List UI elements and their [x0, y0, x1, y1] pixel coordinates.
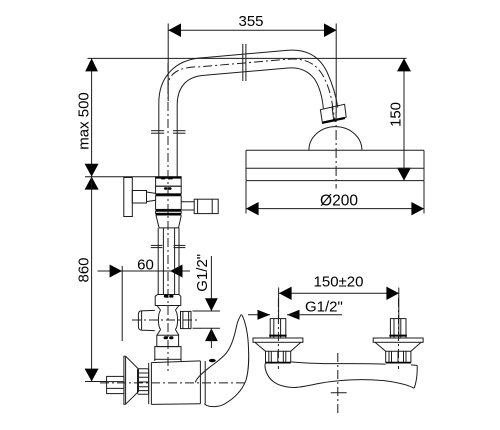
cross top shoulders: [157, 306, 179, 311]
left union escutcheon plate: [253, 338, 303, 342]
left knob stem: [132, 191, 146, 204]
left union centerline (dash-dot): [277, 298, 279, 369]
left union cone: [255, 342, 301, 351]
shower head dome: [309, 127, 362, 151]
shower head plate bottom edge: [246, 180, 424, 182]
right union stub base dark line: [389, 335, 406, 337]
cross top nut glyph: [164, 295, 168, 298]
shower head plate mid edge: [246, 167, 424, 169]
lower pipe outer edges: [157, 228, 159, 295]
cartridge neck: [155, 359, 181, 361]
lever handle inner edge: [195, 316, 240, 382]
union ticks on lower pipe: [151, 244, 163, 246]
flange throat line: [137, 369, 139, 392]
dim max500 line: [91, 58, 93, 176]
dim 60 extension line (wall plane): [121, 266, 123, 341]
shower head plate top edge: [246, 149, 424, 151]
dim 355 left extension line (riser centerline): [167, 24, 169, 102]
left union fluted nut bottom: [266, 362, 291, 364]
spout inner curve: [177, 68, 323, 109]
shower head plate right edge: [423, 150, 425, 180]
svg-text:355: 355: [238, 13, 263, 30]
dim G1/2 upper bottom tail: [210, 328, 212, 348]
dim 355 left arrow: [168, 23, 181, 37]
left knob plate: [124, 178, 133, 217]
cross left horn: [138, 310, 154, 330]
left union stub: [270, 319, 286, 338]
dim 355 right arrow: [324, 23, 337, 37]
extension line at mixer top: [85, 176, 156, 178]
wall pipe break right end: [414, 365, 417, 388]
knurl rib lines: [138, 373, 149, 391]
left union fluted nut: [266, 351, 291, 362]
shower head connector dark seam: [323, 118, 345, 123]
valve mid body: [156, 196, 182, 210]
union ticks on riser: [151, 130, 164, 132]
mixer body end rings: [199, 361, 201, 404]
wall flange: [124, 356, 138, 404]
dim max500/860 hourglass arrows: [85, 164, 99, 190]
midpoint centerline (dash-dot): [337, 353, 339, 416]
dim 60 right arrow: [170, 265, 182, 278]
dim 355 right extension line (head centerline): [335, 24, 337, 114]
cross right stub: [181, 311, 192, 328]
dim G1/2 lower leader left: [248, 314, 270, 316]
svg-text:150: 150: [388, 102, 405, 127]
cross bottom nut: [157, 335, 179, 346]
wall pipe break top line: [291, 362, 418, 366]
cross top nut: [155, 295, 181, 306]
valve ring glyph: [164, 187, 167, 190]
handle set screw dot: [209, 359, 216, 362]
svg-text:G1/2": G1/2": [305, 298, 343, 315]
union ticks on top arm: [242, 44, 244, 81]
cross bottom shoulders: [157, 330, 179, 336]
svg-text:150±20: 150±20: [314, 274, 364, 291]
right union fluted nut: [386, 351, 411, 362]
valve ring line: [156, 209, 182, 211]
shower head centerline (dash-dot): [335, 112, 337, 189]
cross bottom nut glyph: [164, 336, 168, 339]
lever handle tip: [240, 315, 242, 316]
riser pipe right edge: [176, 104, 178, 177]
dim O200 right extension: [423, 181, 425, 214]
left stem connector: [147, 192, 156, 202]
dim max500 top arrow: [85, 58, 98, 71]
dim 860 bottom arrow: [85, 369, 99, 382]
dim 60 line: [98, 270, 191, 272]
shower head connector nut: [320, 104, 346, 123]
right union cone: [375, 342, 421, 351]
extension line at mixer inlet nut: [85, 381, 107, 383]
midpoint cross tick: [331, 392, 347, 394]
cross ball right arc: [175, 310, 177, 329]
right union stub: [390, 319, 406, 338]
dim G1/2 upper leader: [210, 256, 212, 311]
dim 150pm20 left arrow: [279, 287, 292, 300]
valve cap glyphs: [161, 177, 165, 180]
right union fluted nut bottom: [386, 362, 411, 364]
dim G1/2 upper bottom arrow: [205, 328, 218, 341]
wall pipe break left rounded end: [265, 363, 295, 388]
mixer body centerline (dash-dot): [100, 382, 247, 384]
cross left horn cap line: [141, 311, 143, 330]
dim 150 bottom arrow: [397, 168, 411, 181]
wall pipe break bottom line: [295, 380, 415, 389]
valve lower band: [156, 211, 182, 213]
valve cap block: [156, 177, 182, 187]
wall hex nut facet lines: [107, 381, 124, 383]
dim 150 line: [403, 58, 405, 180]
valve taper: [156, 215, 181, 228]
dim G1/2 lower left arrow: [258, 310, 271, 320]
dim 60 left arrow: [110, 265, 122, 278]
dim G1/2 lower leader right: [287, 314, 342, 316]
shower head plate left edge: [245, 150, 247, 180]
right union stub thread lines: [393, 319, 395, 338]
dim 150pm20 right arrow: [386, 287, 399, 300]
dim O200 line: [246, 208, 424, 210]
lower block: [155, 347, 181, 360]
right diverter knob: [194, 199, 218, 213]
cross right stub lines: [182, 311, 184, 328]
valve divider B: [156, 213, 182, 215]
right union escutcheon plate: [373, 338, 423, 342]
left union stub base dark line: [269, 335, 286, 337]
top reference extension line: [88, 57, 407, 59]
valve divider A: [156, 194, 182, 196]
dim O200 left arrow: [246, 202, 259, 215]
cross ball left arc: [158, 310, 160, 329]
svg-text:60: 60: [137, 257, 154, 274]
right union centerline (dash-dot): [398, 298, 400, 369]
right diverter stem: [181, 202, 194, 210]
dim 355 line: [168, 29, 336, 31]
dim G1/2 lower right arrow: [287, 310, 300, 320]
dim 860 line: [91, 177, 93, 382]
valve cap thick top: [156, 177, 182, 179]
dim G1/2 upper extension lines: [193, 310, 221, 312]
cross horizontal centerline (dash-dot): [132, 319, 200, 321]
mixer body outline: [149, 361, 201, 405]
mixer centerline (dash-dot): [167, 85, 169, 374]
dim 150pm20 line: [279, 292, 399, 294]
lower pipe inner lines: [162, 228, 164, 295]
svg-text:Ø200: Ø200: [320, 192, 358, 209]
dim G1/2 upper top arrow: [205, 298, 218, 311]
svg-text:860: 860: [76, 257, 93, 282]
dim 150 top arrow: [397, 58, 411, 71]
lever handle outer edge: [204, 316, 249, 407]
riser pipe left edge: [158, 103, 160, 177]
pipe centerline (dash-dot): [168, 59, 335, 122]
spout outer curve (left bend + top edge + right bend): [159, 50, 338, 107]
left union stub thread lines: [273, 319, 275, 338]
dim O200 left extension: [245, 181, 247, 214]
dim O200 right arrow: [411, 202, 424, 215]
svg-text:G1/2": G1/2": [194, 254, 211, 292]
knurled nut (horizontal ribs): [138, 369, 149, 395]
dim 150pm20 right extension: [398, 288, 400, 340]
valve ring band: [156, 186, 182, 194]
dim 150pm20 left extension: [278, 288, 280, 319]
wall hex nut: [107, 376, 124, 393]
right knob face lines: [197, 199, 199, 213]
svg-text:max 500: max 500: [76, 92, 93, 150]
